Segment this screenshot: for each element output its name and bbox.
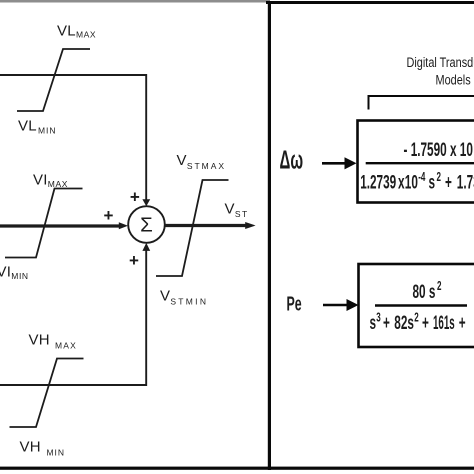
svg-text:+: + [459,313,466,333]
svg-text:+: + [383,313,390,333]
svg-text:1.2739: 1.2739 [360,173,396,193]
svg-text:2: 2 [437,170,441,184]
svg-text:+: + [130,188,140,207]
svg-text:s: s [429,173,436,193]
svg-text:Digital Transducer: Digital Transducer [407,55,474,71]
svg-text:s: s [370,313,377,333]
svg-text:1.73: 1.73 [457,173,474,193]
svg-text:x: x [398,173,405,193]
svg-text:2: 2 [414,311,418,325]
svg-text:+: + [445,173,452,193]
svg-text:+: + [104,206,114,225]
svg-text:Σ: Σ [140,214,153,237]
svg-text:+: + [129,251,139,270]
svg-text:82s: 82s [394,313,414,333]
svg-text:- 1.7590 x 10: - 1.7590 x 10 [404,140,474,160]
svg-text:Models: Models [436,72,471,88]
svg-text:Δω: Δω [280,145,304,174]
svg-text:80 s: 80 s [413,282,436,302]
svg-text:3: 3 [376,311,380,325]
svg-text:161s: 161s [433,313,455,333]
svg-text:10: 10 [405,173,418,193]
svg-text:+: + [422,313,429,333]
svg-text:Pe: Pe [287,292,302,315]
svg-text:-4: -4 [418,170,425,184]
svg-text:2: 2 [437,279,441,293]
